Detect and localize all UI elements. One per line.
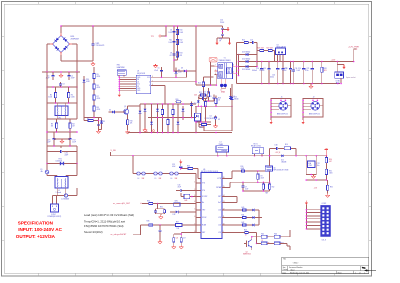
diode D1 startup xyxy=(100,118,105,127)
regulator U5 7805 xyxy=(306,156,320,175)
svg-text:R36: R36 xyxy=(147,221,150,223)
svg-text:NPN DIODE-R TO92M: NPN DIODE-R TO92M xyxy=(274,170,289,172)
svg-text:L7805: L7805 xyxy=(308,165,312,167)
svg-text:9: 9 xyxy=(223,231,224,233)
resistor R44 grid xyxy=(261,234,274,242)
diode ZD1 xyxy=(83,77,90,85)
wire fb hline y1175 xyxy=(148,117,196,119)
connector CON1 dc jack xyxy=(335,66,356,85)
ground emi CY mid xyxy=(54,139,70,143)
resistor R28 bleeder xyxy=(321,62,327,84)
wire pwm left pin bus xyxy=(119,77,136,93)
svg-text:IEx: IEx xyxy=(202,202,204,204)
svg-text:R27 10R: R27 10R xyxy=(267,47,274,49)
wire bridge top to rail xyxy=(60,25,62,33)
svg-text:R6: R6 xyxy=(97,85,99,87)
resistor R43 base xyxy=(244,230,257,237)
capacitor C31 relay branch xyxy=(275,144,282,154)
wire cx3 sides xyxy=(47,146,77,152)
svg-text:J1: J1 xyxy=(281,97,283,99)
svg-text:510K: 510K xyxy=(71,97,76,99)
svg-text:D15: D15 xyxy=(281,160,284,162)
resistor R21 cluster xyxy=(199,92,207,96)
wire acrdo row xyxy=(133,225,141,235)
diode D3 clamp xyxy=(174,68,196,73)
ferrite bead L5 xyxy=(154,172,162,180)
svg-text:D15 SB560: D15 SB560 xyxy=(242,69,250,71)
svg-text:102P: 102P xyxy=(168,32,172,34)
label ac_detect net xyxy=(113,203,142,205)
resistor R3 xyxy=(51,119,58,132)
wire varistor branch xyxy=(92,25,94,61)
ground startup xyxy=(96,126,101,133)
svg-text:HS1: HS1 xyxy=(117,65,120,67)
svg-text:R35: R35 xyxy=(160,207,163,209)
svg-text:Document Number: Document Number xyxy=(289,266,303,269)
capacitor C17 bulk xyxy=(281,62,287,84)
svg-text:47K: 47K xyxy=(180,55,183,57)
relay RLY1 xyxy=(251,143,264,155)
ground output rail xyxy=(309,84,313,89)
svg-text:47uF: 47uF xyxy=(178,186,182,188)
wire rail to regulator xyxy=(295,155,327,157)
wire aux bottom xyxy=(204,95,215,102)
ground acdet xyxy=(159,214,163,219)
svg-text:FB: FB xyxy=(137,79,139,81)
wire output bottom rail xyxy=(237,83,341,85)
svg-text:30R: 30R xyxy=(142,178,146,180)
resistor R24 opto xyxy=(199,124,211,129)
svg-text:ZD2: ZD2 xyxy=(194,103,197,105)
power arrow cn vcc xyxy=(305,201,308,210)
wire mcu pin13 row xyxy=(226,197,237,203)
wire row 191 join xyxy=(242,190,269,192)
svg-text:Sheet: Sheet xyxy=(338,271,343,274)
svg-text:R16: R16 xyxy=(285,144,288,146)
svg-text:PC817(EL817): PC817(EL817) xyxy=(205,118,216,120)
svg-text:Wednesday, June 15, 2011: Wednesday, June 15, 2011 xyxy=(290,272,309,274)
ground opto xyxy=(211,122,218,128)
capacitor CX1 xyxy=(46,72,55,80)
wire emi rail y132 xyxy=(46,131,78,133)
svg-text:1000uF: 1000uF xyxy=(259,70,264,72)
svg-text:C23: C23 xyxy=(172,164,175,166)
svg-text:10K: 10K xyxy=(130,123,133,125)
label +12V net xyxy=(331,59,336,61)
resistor R33 mcu top xyxy=(180,166,201,179)
svg-text:1K: 1K xyxy=(218,100,220,102)
svg-text:Q1: Q1 xyxy=(124,106,126,108)
svg-text:OSTAB: OSTAB xyxy=(216,186,221,189)
svg-text:R20: R20 xyxy=(176,99,179,101)
svg-text:C22: C22 xyxy=(317,163,320,165)
capacitor C24 acdet xyxy=(154,204,158,214)
svg-text:10D471K: 10D471K xyxy=(56,161,64,163)
svg-text:R13: R13 xyxy=(180,53,183,55)
svg-text:R21: R21 xyxy=(199,92,202,94)
test point TP2 xyxy=(145,130,155,134)
svg-text:L2: L2 xyxy=(220,90,222,92)
resistor R8 chain xyxy=(93,105,101,113)
svg-text:R9: R9 xyxy=(87,118,89,120)
ferrite bead L6 xyxy=(170,172,178,180)
svg-text:1000uF: 1000uF xyxy=(252,70,257,72)
svg-text:Load (test) 100.0*1=.03 1V1/3G: Load (test) 100.0*1=.03 1V1/3Gain (Std) xyxy=(84,213,134,217)
capacitor C3 xyxy=(59,82,65,87)
svg-text:R42: R42 xyxy=(242,222,245,224)
wire divider bottom xyxy=(305,177,327,181)
wire relay bypass branch xyxy=(269,148,296,156)
capacitor C9 top xyxy=(220,20,224,32)
ground below varistor xyxy=(91,62,95,66)
power arrow pgnd left xyxy=(215,41,218,46)
svg-text:VCC: VCC xyxy=(137,84,140,86)
svg-text:D: D xyxy=(149,85,150,87)
capacitor C32 xyxy=(241,182,248,191)
wire drain vertical xyxy=(195,25,197,85)
diode D15 SB560 xyxy=(239,65,256,71)
svg-text:Temp/CN=1, 2111-8Nd,ph/10.swt: Temp/CN=1, 2111-8Nd,ph/10.swt xyxy=(84,219,125,223)
svg-text:11: 11 xyxy=(223,216,225,218)
ground q1 xyxy=(125,127,129,134)
wire 12V riser xyxy=(354,49,356,62)
svg-text:NC: NC xyxy=(137,86,139,88)
svg-text:R49: R49 xyxy=(265,192,268,194)
svg-text:P3B: P3B xyxy=(219,39,222,41)
svg-text:10K: 10K xyxy=(177,228,180,230)
heatsink HS1 xyxy=(117,65,126,77)
svg-text:SB260: SB260 xyxy=(234,99,239,101)
svg-text:D1: D1 xyxy=(103,121,105,123)
resistor R32 pull xyxy=(327,180,333,193)
svg-text:C18: C18 xyxy=(285,68,288,70)
svg-text:C26: C26 xyxy=(176,238,179,240)
svg-text:GND: GND xyxy=(137,77,140,79)
svg-text:L4: L4 xyxy=(138,178,140,180)
svg-text:MINI DIN PLUG: MINI DIN PLUG xyxy=(277,114,289,116)
capacitor C15 bulk xyxy=(259,62,270,84)
transformer L3 tran xyxy=(216,142,229,156)
svg-text:R40: R40 xyxy=(242,207,245,209)
svg-text:VTG: VTG xyxy=(202,190,206,192)
svg-text:R37: R37 xyxy=(176,221,179,223)
svg-text:U2: U2 xyxy=(210,115,212,117)
diode D12 xyxy=(231,84,239,106)
svg-text:L6: L6 xyxy=(171,178,173,180)
ic U4 sync rect xyxy=(276,45,287,62)
svg-text:CY1: CY1 xyxy=(47,140,50,142)
svg-text:P3GF: P3GF xyxy=(220,22,224,24)
svg-text:FSQ 8N60 16/70707/6041 (Std): FSQ 8N60 16/70707/6041 (Std) xyxy=(84,224,124,228)
svg-text:<Title>: <Title> xyxy=(293,262,300,265)
resistor R46 grid xyxy=(274,234,290,239)
svg-text:1K: 1K xyxy=(245,234,247,236)
svg-text:C3: C3 xyxy=(62,84,64,86)
svg-text:D3: D3 xyxy=(181,68,183,70)
resistor R18 fb xyxy=(167,104,169,133)
svg-text:+12V: +12V xyxy=(331,59,336,61)
svg-text:C27: C27 xyxy=(183,238,186,240)
ground pwm aux xyxy=(153,64,157,68)
wire +12V top rail xyxy=(257,61,354,63)
zener ZD2 xyxy=(190,102,197,118)
wire rectifier join xyxy=(255,55,258,68)
wire standby rail xyxy=(111,155,280,157)
svg-text:V_SB: V_SB xyxy=(111,150,117,152)
wire diode feed bus xyxy=(238,54,240,77)
resistor R30 divider xyxy=(325,156,332,165)
svg-text:10uF: 10uF xyxy=(245,189,248,191)
notes text block xyxy=(84,213,134,234)
specification text xyxy=(16,221,63,239)
wire d12 down xyxy=(204,106,232,131)
svg-text:R15: R15 xyxy=(203,92,206,94)
resistor R17 fb xyxy=(161,103,163,132)
resistor R45 grid xyxy=(261,242,274,245)
svg-text:CN_8: CN_8 xyxy=(322,239,326,241)
capacitor C21 bulk xyxy=(305,62,314,84)
svg-text:R1: R1 xyxy=(50,95,52,97)
op-amp U1 PWM controller xyxy=(136,70,153,93)
wire emi rail y119 xyxy=(47,113,77,119)
clamp flag red box xyxy=(209,57,217,85)
bridge rectifier BD1 xyxy=(50,33,79,55)
connector CON2 header xyxy=(321,203,331,241)
wire q2 collector rows xyxy=(251,236,261,243)
svg-text:1000u: 1000u xyxy=(270,77,274,79)
svg-text:C30: C30 xyxy=(178,184,181,186)
resistor R29 relay branch xyxy=(284,144,290,150)
svg-text:THO: THO xyxy=(202,210,206,212)
wire fuse to choke xyxy=(47,164,77,177)
wire ycap bridge xyxy=(217,38,230,41)
svg-text:C11: C11 xyxy=(209,96,212,98)
svg-text:C10: C10 xyxy=(220,20,223,22)
optocoupler U2 xyxy=(195,106,216,124)
svg-text:C6: C6 xyxy=(170,30,172,32)
svg-text:ac_more qRL_DET: ac_more qRL_DET xyxy=(113,203,131,205)
wire rows join right xyxy=(259,210,262,225)
diode D9 fb xyxy=(156,104,159,133)
label ycap xyxy=(219,39,222,43)
tl431 U3 xyxy=(214,116,220,122)
svg-text:U4: U4 xyxy=(277,45,279,47)
svg-text:MMBT3904: MMBT3904 xyxy=(243,253,251,255)
svg-text:R46: R46 xyxy=(274,234,277,236)
wire cn bus xyxy=(306,209,321,230)
resistor R47 grid xyxy=(274,242,290,246)
svg-text:R24: R24 xyxy=(200,127,203,129)
capacitor C26 xyxy=(172,236,179,249)
svg-text:R12: R12 xyxy=(180,40,183,42)
power arrow sgnd right xyxy=(228,41,231,46)
mouse cursor arrow xyxy=(362,267,376,272)
svg-text:U6: U6 xyxy=(203,169,205,171)
svg-text:100K: 100K xyxy=(168,42,172,44)
svg-text:R26 10R: R26 10R xyxy=(258,47,265,49)
diode D5 fb xyxy=(109,110,119,114)
svg-text:Size: Size xyxy=(283,267,286,269)
svg-text:470u: 470u xyxy=(305,70,309,72)
svg-text:470K: 470K xyxy=(97,98,102,100)
svg-text:VTG: VTG xyxy=(202,183,206,185)
power arrow mcu vcc xyxy=(179,159,182,163)
test point TP1 xyxy=(151,35,167,38)
svg-text:4148: 4148 xyxy=(86,81,90,83)
svg-text:D1B: D1B xyxy=(275,144,278,146)
svg-text:INPUT: 100-240V AC: INPUT: 100-240V AC xyxy=(18,227,62,232)
wire right bus upper xyxy=(76,72,78,113)
svg-text:1M: 1M xyxy=(72,126,75,128)
capacitor C5 vcc xyxy=(154,67,163,78)
svg-text:CS: CS xyxy=(137,81,139,83)
svg-text:10u: 10u xyxy=(317,165,320,167)
svg-text:104P: 104P xyxy=(296,70,300,72)
wire fb bottom rail xyxy=(128,132,232,134)
wire emi rail y146 xyxy=(47,145,77,147)
svg-text:510K: 510K xyxy=(48,97,53,99)
svg-text:TVR10G471: TVR10G471 xyxy=(96,45,105,47)
inductor LF1 common mode choke xyxy=(55,103,68,119)
capacitor C20 bulk xyxy=(296,62,305,84)
svg-text:U5A: U5A xyxy=(308,162,312,165)
ferrite bead L4 xyxy=(137,172,145,180)
label +5V net xyxy=(314,187,318,189)
diode D7 fb xyxy=(143,104,147,132)
ferrite beads L2 below transformer xyxy=(220,79,227,94)
svg-text:D5: D5 xyxy=(109,110,111,112)
svg-text:47uF: 47uF xyxy=(154,70,158,72)
svg-text:ZD1: ZD1 xyxy=(86,79,89,81)
svg-text:U3: U3 xyxy=(218,119,220,121)
resistor R2 discharge xyxy=(67,87,75,103)
svg-text:C1: C1 xyxy=(47,76,49,78)
diode D2 aux xyxy=(175,68,182,79)
ground r32 xyxy=(325,193,329,198)
capacitor C25 xyxy=(158,225,162,244)
svg-text:5: 5 xyxy=(194,209,195,211)
wire startup chain bus xyxy=(93,67,95,72)
transistor Q2 xyxy=(243,237,252,256)
resistor R42 row xyxy=(226,222,259,226)
svg-text:470uF: 470uF xyxy=(282,70,286,72)
svg-text:TP1: TP1 xyxy=(151,36,154,38)
svg-text:C5: C5 xyxy=(157,68,159,70)
resistor R31 divider xyxy=(325,165,332,177)
svg-text:J2: J2 xyxy=(313,97,315,99)
svg-text:R7: R7 xyxy=(97,96,99,98)
svg-text:R32: R32 xyxy=(330,186,333,188)
svg-text:LCD: LCD xyxy=(218,232,222,234)
diode D14 SB560 xyxy=(239,59,256,63)
capacitor C30 mcu left xyxy=(176,184,196,192)
diode D17 on rail xyxy=(280,154,297,163)
wire acdet row xyxy=(142,203,148,205)
resistor R36 row2 xyxy=(141,221,176,226)
svg-text:222P: 222P xyxy=(47,142,51,144)
connector CON7 power socket xyxy=(48,204,62,218)
svg-text:LCD: LCD xyxy=(218,217,222,219)
wire snubber columns xyxy=(173,25,178,72)
wire mcu left pins join xyxy=(195,183,197,233)
wire left bus upper xyxy=(46,72,48,170)
resistor R49 xyxy=(262,182,268,194)
diode D10 fb xyxy=(177,104,180,133)
resistor R19 fb xyxy=(172,103,174,132)
svg-text:ac_rdo go-RxPET: ac_rdo go-RxPET xyxy=(111,234,128,236)
svg-text:4pins socket: 4pins socket xyxy=(346,76,356,79)
ground regulator xyxy=(310,174,315,179)
transformer T1 xyxy=(215,58,236,79)
svg-text:GND: GND xyxy=(137,88,140,90)
svg-text:R4: R4 xyxy=(72,124,74,126)
svg-text:C8: C8 xyxy=(170,53,172,55)
svg-text:470K: 470K xyxy=(97,87,102,89)
wire drain to transformer xyxy=(196,75,217,86)
svg-text:R28: R28 xyxy=(324,68,327,70)
resistor R16 q1 emitter xyxy=(127,118,133,127)
svg-text:R44: R44 xyxy=(261,234,264,236)
wire choke2 to socket loop xyxy=(53,188,78,204)
label V_SB net xyxy=(111,150,117,156)
diode D4 secondary aux xyxy=(229,88,235,100)
wire opto lower xyxy=(195,105,211,132)
svg-text:C21: C21 xyxy=(307,68,310,70)
svg-text:12: 12 xyxy=(223,209,225,211)
resistor R10 snubber xyxy=(176,28,183,36)
svg-text:R25: R25 xyxy=(242,40,245,42)
zener ZD3 xyxy=(194,95,200,107)
wire bridge right leg xyxy=(72,44,77,72)
resistor R1 discharge xyxy=(48,87,56,103)
microcontroller U6 xyxy=(194,169,226,239)
diode D18 mcu xyxy=(170,210,201,216)
snubber R25 C13 top xyxy=(237,40,258,55)
wire bridge bottom loop xyxy=(61,55,93,61)
svg-text:XNT: XNT xyxy=(218,196,221,198)
svg-text:100K: 100K xyxy=(180,42,184,44)
resistor R37 xyxy=(176,221,197,230)
wire chain links xyxy=(93,80,95,118)
svg-text:R5: R5 xyxy=(97,74,99,76)
svg-text:R16: R16 xyxy=(130,121,133,123)
resistor R9 xyxy=(86,118,95,122)
capacitor CY3 bridge xyxy=(221,31,224,38)
svg-text:FSQ0765R: FSQ0765R xyxy=(137,73,146,75)
svg-text:R43: R43 xyxy=(244,230,247,232)
svg-text:4K7: 4K7 xyxy=(329,161,332,163)
svg-text:+12V_PWR: +12V_PWR xyxy=(348,47,359,49)
svg-text:3K3: 3K3 xyxy=(324,70,327,72)
svg-text:R14: R14 xyxy=(198,83,201,85)
resistor R20 horizontal xyxy=(175,99,182,103)
capacitor C6 snubber xyxy=(168,28,175,36)
svg-text:SLow=13(1K2): SLow=13(1K2) xyxy=(84,230,103,234)
svg-text:1 Bead: 1 Bead xyxy=(56,192,61,194)
svg-text:GND: GND xyxy=(137,90,140,92)
svg-text:14: 14 xyxy=(223,195,225,197)
capacitor C16 bulk xyxy=(270,62,280,84)
svg-text:Date:: Date: xyxy=(283,271,287,274)
svg-text:222P: 222P xyxy=(72,142,76,144)
wire fb hline y104 xyxy=(140,103,196,105)
svg-text:R10: R10 xyxy=(241,166,244,168)
wire aux cluster xyxy=(204,77,214,101)
diode D6 fb xyxy=(139,106,142,133)
fuse F1 xyxy=(41,164,49,174)
svg-text:R30: R30 xyxy=(329,159,332,161)
connector J1 mini din xyxy=(270,97,291,125)
